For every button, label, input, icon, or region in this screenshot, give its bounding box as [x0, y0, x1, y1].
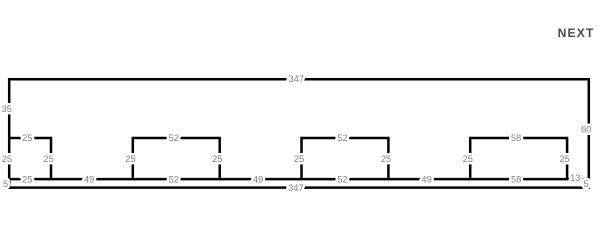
svg-text:5: 5: [584, 179, 589, 189]
svg-text:49: 49: [421, 174, 431, 184]
svg-text:35: 35: [2, 104, 12, 114]
svg-text:25: 25: [463, 154, 473, 164]
NEXT button: [558, 27, 595, 39]
wire tab 2 top edge: [133, 137, 220, 140]
wire tab 4 left side: [469, 137, 472, 179]
wire bottom edge of outer rectangle (347): [8, 186, 590, 189]
svg-text:25: 25: [560, 154, 570, 164]
svg-text:13: 13: [570, 173, 580, 183]
svg-text:25: 25: [22, 174, 32, 184]
wire right edge of outer rectangle (60+5): [588, 78, 591, 189]
svg-text:60: 60: [581, 125, 591, 135]
svg-text:25: 25: [125, 154, 135, 164]
wire tab 4 top edge: [470, 137, 567, 140]
svg-text:52: 52: [169, 133, 179, 143]
svg-text:58: 58: [511, 174, 521, 184]
wire tab 2 left side: [132, 137, 135, 179]
svg-text:52: 52: [337, 133, 347, 143]
svg-text:25: 25: [294, 154, 304, 164]
svg-text:52: 52: [169, 174, 179, 184]
svg-text:25: 25: [22, 133, 32, 143]
wire tab 1 right side: [50, 137, 53, 179]
svg-text:347: 347: [288, 183, 304, 193]
wire left edge of outer rectangle (35+25+5): [8, 78, 11, 189]
wire top edge of outer rectangle (347): [8, 78, 590, 81]
wire tab 3 left side: [300, 137, 303, 179]
wire tab 2 right side: [218, 137, 221, 179]
svg-text:25: 25: [212, 154, 222, 164]
wire tab 1 top edge: [9, 137, 51, 140]
svg-text:25: 25: [43, 154, 53, 164]
svg-text:25: 25: [381, 154, 391, 164]
wire tab 3 top edge: [302, 137, 389, 140]
svg-text:52: 52: [337, 174, 347, 184]
wire tab 4 right side: [566, 137, 569, 179]
svg-text:5: 5: [3, 179, 8, 189]
wire inner horizontal profile line: [9, 178, 589, 181]
svg-text:25: 25: [2, 154, 12, 164]
svg-text:49: 49: [84, 174, 94, 184]
svg-text:58: 58: [511, 133, 521, 143]
svg-text:49: 49: [253, 174, 263, 184]
svg-text:347: 347: [289, 74, 305, 84]
wire tab 3 right side: [387, 137, 390, 179]
